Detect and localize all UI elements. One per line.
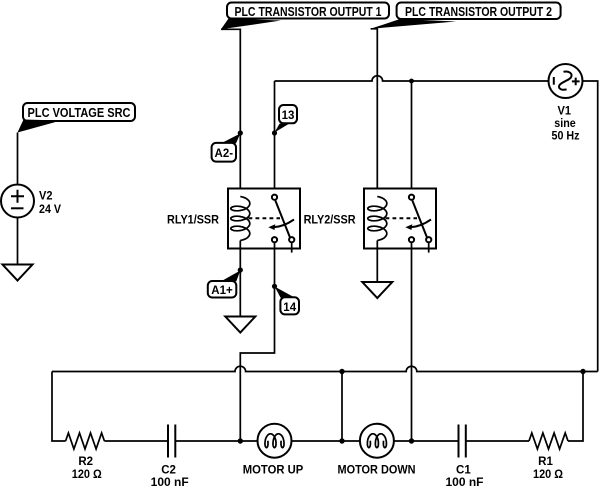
RLY1 coil [231, 197, 250, 241]
wire C2 to C1 through motors [175, 440, 458, 442]
svg-text:R2: R2 [78, 456, 93, 468]
wire C1 to R1 [466, 440, 529, 442]
RLY1 pin stub bottom-right [291, 243, 293, 253]
relay RLY1/SSR box [228, 189, 300, 249]
RLY2 dashed link [386, 217, 418, 219]
wire bus to R1 [568, 372, 583, 442]
svg-text:MOTOR UP: MOTOR UP [243, 465, 304, 477]
RLY2 pin stub bottom-right [428, 243, 430, 253]
flag label PLC VOLTAGE SRC [18, 103, 136, 133]
label R1 120 ohm [533, 456, 563, 481]
svg-text:R1: R1 [538, 456, 553, 468]
node A1+ [208, 267, 243, 297]
junction at RLY2 switch common wire [409, 79, 414, 84]
svg-text:V2: V2 [39, 189, 53, 203]
junction bus-R1 [580, 369, 585, 374]
flag label PLC TRANSISTOR OUTPUT 1 [221, 3, 389, 30]
resistor R1 [529, 433, 568, 449]
wire V2 to ground [17, 218, 19, 265]
svg-text:13: 13 [282, 110, 295, 122]
ground below V2 [3, 265, 33, 281]
resistor R2 [66, 433, 105, 449]
wire from PLC VOLTAGE SRC flag to V2 [17, 133, 19, 185]
svg-text:24 V: 24 V [39, 202, 61, 216]
wire bus [52, 366, 598, 371]
ground below RLY1 [225, 317, 255, 333]
wire to RLY2 switch common [411, 81, 413, 194]
svg-text:PLC TRANSISTOR OUTPUT 2: PLC TRANSISTOR OUTPUT 2 [405, 4, 552, 19]
svg-text:14: 14 [283, 302, 296, 314]
wire horizontal top with hop over flag2 wire [275, 76, 549, 81]
label C2 100 nF [151, 465, 189, 489]
svg-text:120 Ω: 120 Ω [72, 469, 102, 481]
RLY1 dashed link [249, 217, 281, 219]
capacitor C2 [168, 425, 175, 458]
wire bus to motor mid node [341, 372, 343, 442]
junction rail-bus link [339, 438, 344, 443]
capacitor C1 [459, 425, 466, 458]
motor MOTOR DOWN [360, 424, 394, 458]
wire flag2 to RLY2 coil [371, 29, 378, 197]
wire V1 to right bus [583, 81, 598, 372]
svg-text:A1+: A1+ [211, 285, 233, 297]
wire left column [52, 372, 66, 442]
motor MOTOR UP [258, 424, 292, 458]
wire RLY1 coil to ground [239, 241, 241, 317]
svg-text:MOTOR DOWN: MOTOR DOWN [338, 465, 416, 477]
node A2- [212, 130, 243, 161]
label V1 sine 50 Hz [552, 104, 580, 143]
label V2 24 V [39, 189, 61, 217]
svg-text:50 Hz: 50 Hz [552, 129, 580, 143]
svg-text:RLY1/SSR: RLY1/SSR [167, 212, 219, 226]
AC source V1 [549, 64, 583, 98]
wire RLY2 switch to bottom rail [411, 243, 413, 441]
RLY2 switch [405, 195, 431, 243]
svg-text:A2-: A2- [215, 148, 234, 160]
svg-text:RLY2/SSR: RLY2/SSR [304, 212, 356, 226]
svg-text:PLC TRANSISTOR OUTPUT 1: PLC TRANSISTOR OUTPUT 1 [235, 4, 382, 19]
wire RLY2 coil to ground [376, 241, 378, 283]
svg-text:120 Ω: 120 Ω [533, 469, 563, 481]
svg-text:C2: C2 [161, 465, 176, 477]
relay RLY2/SSR box [364, 189, 436, 249]
svg-text:100 nF: 100 nF [151, 477, 189, 487]
wire RLY1 pin 14 to bottom rail [240, 243, 274, 441]
voltage source V2 [1, 185, 34, 218]
label C1 100 nF [446, 465, 484, 489]
svg-text:100 nF: 100 nF [446, 477, 484, 487]
flag label PLC TRANSISTOR OUTPUT 2 [371, 3, 561, 29]
junction bus-motor mid [339, 369, 344, 374]
wire flag1 to RLY1 coil [221, 29, 240, 196]
RLY2 coil [368, 197, 387, 241]
RLY1 switch [268, 195, 294, 243]
node 14 [272, 284, 299, 315]
ground below RLY2 [362, 282, 392, 298]
node 13 [272, 105, 297, 136]
label R2 120 ohm [72, 456, 102, 481]
svg-text:PLC VOLTAGE SRC: PLC VOLTAGE SRC [28, 105, 132, 120]
junction rail-RLY2 switch wire [409, 438, 414, 443]
wire to RLY1 switch common [274, 81, 276, 194]
svg-text:C1: C1 [456, 465, 471, 477]
junction rail-RLY1 pin14 wire [238, 438, 243, 443]
wire R2 to C2 [104, 440, 168, 442]
